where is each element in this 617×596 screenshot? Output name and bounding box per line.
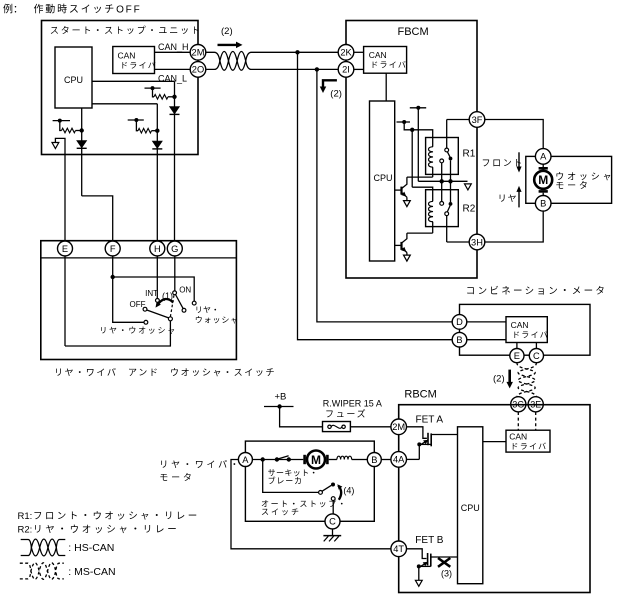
- svg-text:モータ: モータ: [159, 473, 194, 483]
- svg-text:作動時スイッチOFF: 作動時スイッチOFF: [34, 3, 142, 16]
- svg-text:モータ: モータ: [555, 181, 590, 191]
- svg-text:R1: R1: [463, 149, 476, 160]
- svg-text:2M: 2M: [192, 48, 205, 58]
- svg-text:CPU: CPU: [374, 173, 393, 183]
- svg-text:例：: 例：: [3, 3, 23, 16]
- svg-text:R1:: R1:: [18, 511, 33, 522]
- svg-text:ドライバ: ドライバ: [512, 331, 549, 340]
- svg-text:B: B: [540, 199, 546, 209]
- svg-text:H: H: [154, 244, 161, 254]
- svg-text:リヤ: リヤ: [498, 194, 518, 204]
- svg-text:FET B: FET B: [415, 535, 443, 546]
- svg-text:2O: 2O: [192, 65, 204, 75]
- svg-text:FBCM: FBCM: [398, 26, 429, 38]
- svg-text:4A: 4A: [393, 455, 405, 465]
- svg-text:CAN: CAN: [511, 320, 529, 330]
- svg-text:R2: R2: [463, 204, 476, 215]
- svg-text:CAN_H: CAN_H: [158, 42, 189, 52]
- svg-text:リヤ・ウオッシャ・リレー: リヤ・ウオッシャ・リレー: [33, 525, 179, 536]
- svg-text:OFF: OFF: [130, 300, 146, 309]
- svg-text:R.WIPER 15 A: R.WIPER 15 A: [323, 399, 382, 409]
- svg-text:リヤ・ワイパ・: リヤ・ワイパ・: [159, 460, 241, 470]
- svg-text:R2:: R2:: [18, 525, 33, 536]
- svg-text:2I: 2I: [342, 65, 350, 75]
- svg-text:CPU: CPU: [64, 75, 83, 85]
- svg-text:CAN_L: CAN_L: [158, 74, 187, 84]
- svg-text:: HS-CAN: : HS-CAN: [68, 542, 114, 554]
- svg-text:B: B: [456, 335, 462, 345]
- svg-text:ON: ON: [179, 286, 191, 295]
- svg-text:ドライバ: ドライバ: [120, 61, 157, 70]
- svg-text:CPU: CPU: [461, 503, 480, 513]
- svg-text:リヤ・: リヤ・: [195, 306, 220, 315]
- svg-text:4T: 4T: [393, 544, 404, 554]
- svg-text:CAN: CAN: [369, 50, 387, 60]
- svg-text:コンビネーション・メータ: コンビネーション・メータ: [466, 286, 607, 297]
- svg-text:ウォッシャ: ウォッシャ: [195, 316, 240, 325]
- svg-text:D: D: [456, 317, 463, 327]
- svg-text:スイッチ: スイッチ: [261, 508, 301, 517]
- svg-text:G: G: [171, 244, 178, 254]
- svg-text:A: A: [540, 152, 547, 162]
- svg-text:(2): (2): [221, 26, 233, 37]
- svg-text:M: M: [538, 173, 548, 187]
- svg-text:M: M: [311, 453, 321, 467]
- svg-text:+B: +B: [275, 392, 287, 403]
- svg-text:CAN: CAN: [118, 51, 136, 61]
- svg-text:ドライバ: ドライバ: [370, 61, 407, 70]
- svg-text:フューズ: フューズ: [325, 408, 367, 419]
- svg-text:A: A: [242, 455, 249, 465]
- svg-text:FET A: FET A: [416, 415, 444, 426]
- svg-text:INT: INT: [145, 289, 158, 298]
- svg-text:ドライバ: ドライバ: [510, 442, 547, 451]
- svg-text:B: B: [371, 455, 377, 465]
- svg-text:F: F: [110, 244, 116, 254]
- svg-text:(1): (1): [162, 291, 173, 301]
- svg-text:(4): (4): [343, 486, 354, 496]
- svg-text:: MS-CAN: : MS-CAN: [68, 566, 115, 578]
- svg-text:フロント・ウオッシャ・リレー: フロント・ウオッシャ・リレー: [33, 511, 200, 522]
- svg-text:(2): (2): [493, 374, 505, 385]
- svg-text:2K: 2K: [340, 48, 352, 58]
- svg-text:C: C: [329, 517, 336, 527]
- svg-text:スタート・ストップ・ユニット: スタート・ストップ・ユニット: [50, 26, 202, 36]
- svg-text:3F: 3F: [472, 115, 483, 125]
- svg-text:2M: 2M: [392, 422, 405, 432]
- svg-text:(2): (2): [330, 88, 342, 99]
- svg-text:リヤ・ワイパ アンド ウオッシャ・スイッチ: リヤ・ワイパ アンド ウオッシャ・スイッチ: [54, 368, 276, 378]
- svg-text:C: C: [533, 351, 540, 361]
- svg-text:RBCM: RBCM: [404, 389, 436, 401]
- svg-text:ブレーカ: ブレーカ: [268, 476, 303, 486]
- svg-text:E: E: [514, 351, 520, 361]
- svg-text:(3): (3): [441, 569, 452, 579]
- svg-text:E: E: [62, 244, 68, 254]
- svg-text:CAN: CAN: [509, 432, 527, 442]
- svg-text:リヤ・ウオッシャ: リヤ・ウオッシャ: [99, 326, 177, 335]
- svg-text:3H: 3H: [471, 237, 483, 247]
